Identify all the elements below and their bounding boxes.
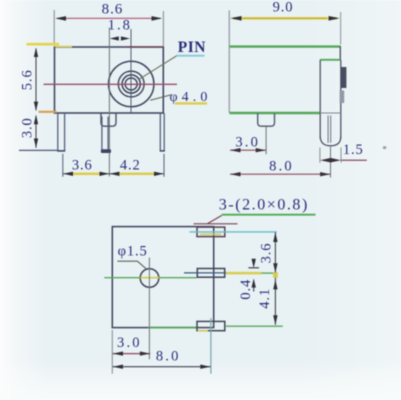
pad P3 yellow fringe	[198, 330, 209, 332]
svg-text:8.0: 8.0	[269, 159, 294, 175]
label underline green	[222, 214, 316, 216]
svg-text:0.4: 0.4	[238, 279, 254, 300]
barrel bottom cap	[320, 137, 341, 146]
body bottom line through barrel	[320, 112, 341, 114]
pad P2 centerline yellow	[226, 272, 262, 275]
svg-text:4.2: 4.2	[120, 157, 141, 173]
dimension 1.8	[108, 18, 132, 41]
dimension 3.0 left	[19, 115, 58, 151]
dimension 3.6 bottom	[259, 232, 278, 325]
phi1.5 leader	[117, 261, 146, 269]
pad P2 centerline dark	[184, 272, 226, 274]
pad P3 centerline green	[226, 325, 283, 327]
svg-text:8.6: 8.6	[102, 1, 123, 17]
body top edge yellow fringe	[55, 46, 72, 48]
center pin leg	[101, 117, 111, 154]
jack pin circle	[125, 78, 137, 90]
dimension 5.6	[19, 44, 59, 112]
dimension 3.0 bottom	[112, 330, 150, 374]
body bottom edge green segment	[148, 327, 198, 329]
jack barrel circle	[122, 75, 140, 93]
phi4.0 leader	[150, 95, 172, 101]
bottom view body	[112, 227, 213, 328]
svg-text:3.0: 3.0	[117, 335, 142, 351]
pad P1 yellow streak	[200, 233, 222, 235]
barrel left edge	[319, 60, 321, 139]
dimension 1.5	[320, 142, 367, 163]
jack ring circle	[118, 71, 144, 97]
svg-text:5.6: 5.6	[19, 69, 35, 90]
dimension 8.6	[54, 1, 163, 46]
center pin stub	[101, 113, 116, 126]
side body left edge and 9.0 extension	[228, 10, 230, 113]
dimension 4.2	[109, 154, 164, 177]
dimension 0.4	[238, 259, 259, 300]
svg-text:φ1.5: φ1.5	[118, 244, 148, 260]
mounting hole	[140, 269, 159, 288]
body top edge maroon fringe	[126, 46, 163, 48]
barrel right edge	[340, 60, 342, 139]
dimension 9.0	[230, 0, 340, 45]
hole centerline yellow segment	[141, 277, 160, 279]
dimension 3.0 side	[230, 127, 266, 155]
barrel step line green	[320, 59, 340, 61]
horizontal centerline magenta	[44, 83, 178, 85]
left mounting leg	[57, 113, 65, 151]
pad P2	[197, 269, 224, 278]
svg-text:1.8: 1.8	[108, 18, 132, 34]
dimension 8.0 bottom	[113, 318, 211, 374]
hole vertical centerline	[148, 258, 150, 360]
svg-text:8.0: 8.0	[156, 348, 181, 364]
stray dot	[383, 146, 387, 149]
svg-text:4.1: 4.1	[257, 288, 273, 309]
svg-text:3.0: 3.0	[19, 117, 35, 138]
PIN underline cyan	[176, 55, 205, 57]
side body right edge	[339, 46, 341, 60]
pad P2 centerline green	[262, 272, 278, 274]
front view body	[55, 47, 164, 113]
pad P1 centerline cyan	[190, 231, 277, 233]
side body bottom edge green	[230, 112, 321, 114]
right mounting leg	[160, 113, 165, 151]
svg-text:3-(2.0×0.8): 3-(2.0×0.8)	[219, 197, 309, 214]
pad P1	[197, 227, 225, 237]
svg-text:3.6: 3.6	[72, 157, 93, 173]
dimension 3.6	[63, 154, 110, 177]
stub below side body	[258, 113, 275, 126]
side lug lower gray	[340, 91, 345, 104]
svg-text:9.0: 9.0	[273, 0, 294, 16]
label leader	[194, 215, 238, 223]
svg-text:PIN: PIN	[178, 39, 206, 56]
vertical centerline	[130, 29, 132, 113]
side lug upper dark	[341, 67, 347, 88]
hole horizontal centerline green	[104, 277, 196, 279]
side body top edge green	[230, 45, 341, 47]
barrel inner pin	[328, 116, 331, 143]
svg-text:3.6: 3.6	[259, 243, 275, 264]
phi4.0 underline yellow	[175, 102, 207, 104]
extension line middle leg center	[108, 28, 110, 177]
dimension 4.1	[257, 272, 278, 325]
jack outer circle	[109, 61, 154, 106]
svg-text:3.0: 3.0	[235, 134, 260, 150]
pad P3	[197, 321, 225, 330]
svg-text:1.5: 1.5	[343, 142, 364, 158]
PIN leader	[140, 56, 177, 79]
dimension 8.0 side	[230, 147, 331, 178]
